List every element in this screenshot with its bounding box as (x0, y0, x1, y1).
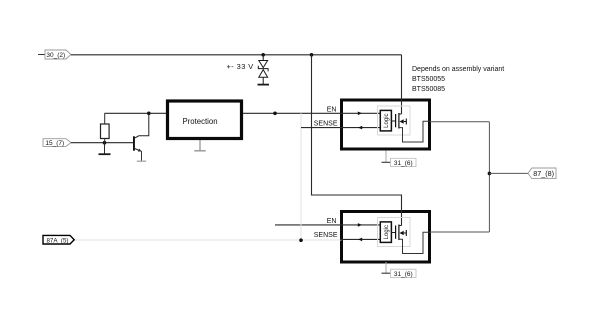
U3 EN arrow (358, 223, 362, 227)
node junction rail/branch (310, 53, 314, 57)
svg-text:Logic: Logic (384, 225, 390, 239)
net label 31_(6) bottom (391, 269, 417, 278)
U3 gate wire (391, 232, 395, 234)
transistor Q1 (133, 113, 149, 161)
U2 inner sense frame (378, 106, 411, 135)
svg-text:87_(8): 87_(8) (533, 169, 554, 178)
ground Q1 emitter (137, 160, 146, 162)
U3 mosfet drain lead (399, 225, 402, 227)
U2 mosfet drain lead (399, 113, 402, 115)
svg-text:SENSE: SENSE (314, 121, 338, 128)
ground TVS (258, 84, 270, 86)
node junction EN branch (273, 112, 277, 116)
ground R1 (99, 153, 111, 155)
U3 SENSE arrow (358, 238, 362, 242)
svg-text:15_(7): 15_(7) (45, 140, 64, 147)
U2 EN arrow (358, 112, 362, 116)
wire KL30 rail (71, 54, 402, 56)
net tag 87_(8) (528, 168, 556, 179)
block Protection U1 (168, 101, 242, 139)
wire SENSE bottom light (74, 239, 342, 241)
U2 mosfet body arrow (400, 119, 407, 125)
svg-text:87A_(5): 87A_(5) (46, 237, 68, 244)
resistor R1 (101, 113, 110, 142)
svg-text:BTS50055: BTS50055 (412, 76, 445, 83)
net tag 30_(2) (45, 50, 71, 59)
wire branch down x312 (312, 55, 402, 226)
svg-text:31_(6): 31_(6) (394, 160, 413, 167)
U3 logic box (380, 222, 391, 243)
U2 ground pin tick (382, 161, 392, 163)
wire SENSE top (301, 127, 380, 129)
node junction rail/TVS (261, 53, 265, 57)
U2 gate wire (391, 120, 395, 122)
net tag 30_(2) stub (38, 54, 45, 56)
ground protection (194, 150, 205, 152)
svg-text:EN: EN (327, 218, 337, 225)
wire EN net bottom (275, 224, 380, 226)
U3 source route (399, 232, 430, 253)
node junction R1 bottom (103, 141, 107, 145)
wire R1 bottom ground stem (104, 143, 106, 154)
node junction collector (147, 112, 151, 116)
wire EN net top (243, 112, 380, 114)
svg-text:31_(6): 31_(6) (394, 271, 413, 278)
wire base rail to protection (105, 112, 167, 114)
U3 inner sense frame (378, 218, 411, 247)
U3 mosfet body arrow (400, 230, 407, 236)
net label 31_(6) top (391, 158, 417, 167)
U3 ground pin tick (382, 272, 392, 274)
net tag 15_(7) (43, 139, 71, 147)
wire KL15 input (71, 142, 134, 144)
svg-text:EN: EN (327, 106, 337, 113)
svg-text:BTS50085: BTS50085 (412, 86, 445, 93)
wire SENSE vertical light (300, 113, 302, 240)
node junction SENSE join (299, 238, 303, 242)
U2 mosfet channel (398, 113, 400, 129)
U2 source route (399, 121, 430, 142)
block switch U2 (top) (342, 100, 430, 149)
svg-text:Depends on assembly variant: Depends on assembly variant (412, 66, 504, 73)
svg-text:Protection: Protection (182, 117, 217, 126)
U3 ground pin stem (385, 262, 387, 273)
U2 ground pin stem (385, 151, 387, 163)
U2 mosfet gate bar (395, 114, 397, 127)
TVS diode D1 (258, 55, 268, 85)
block switch U3 (bottom) (342, 212, 430, 263)
U2 logic box (380, 110, 391, 130)
wire U3 output (430, 231, 489, 233)
annotation variant note (412, 66, 504, 93)
svg-text:+- 33 V: +- 33 V (227, 62, 254, 71)
wire SENSE bottom dark (340, 238, 380, 240)
svg-text:SENSE: SENSE (314, 232, 338, 239)
svg-text:Logic: Logic (384, 113, 390, 127)
wire rail drop to top switch drain (401, 55, 403, 114)
U2 SENSE arrow (358, 126, 362, 130)
wire to tag 87 (489, 172, 528, 174)
U3 mosfet gate bar (395, 226, 397, 239)
node junction output (488, 172, 492, 176)
wire output bus vertical (488, 122, 490, 232)
U3 mosfet channel (398, 225, 400, 241)
net tag 87A_(5) (43, 235, 74, 244)
wire U2 output (430, 121, 489, 123)
svg-text:30_(2): 30_(2) (46, 52, 65, 59)
wire protection ground stem (199, 140, 201, 150)
